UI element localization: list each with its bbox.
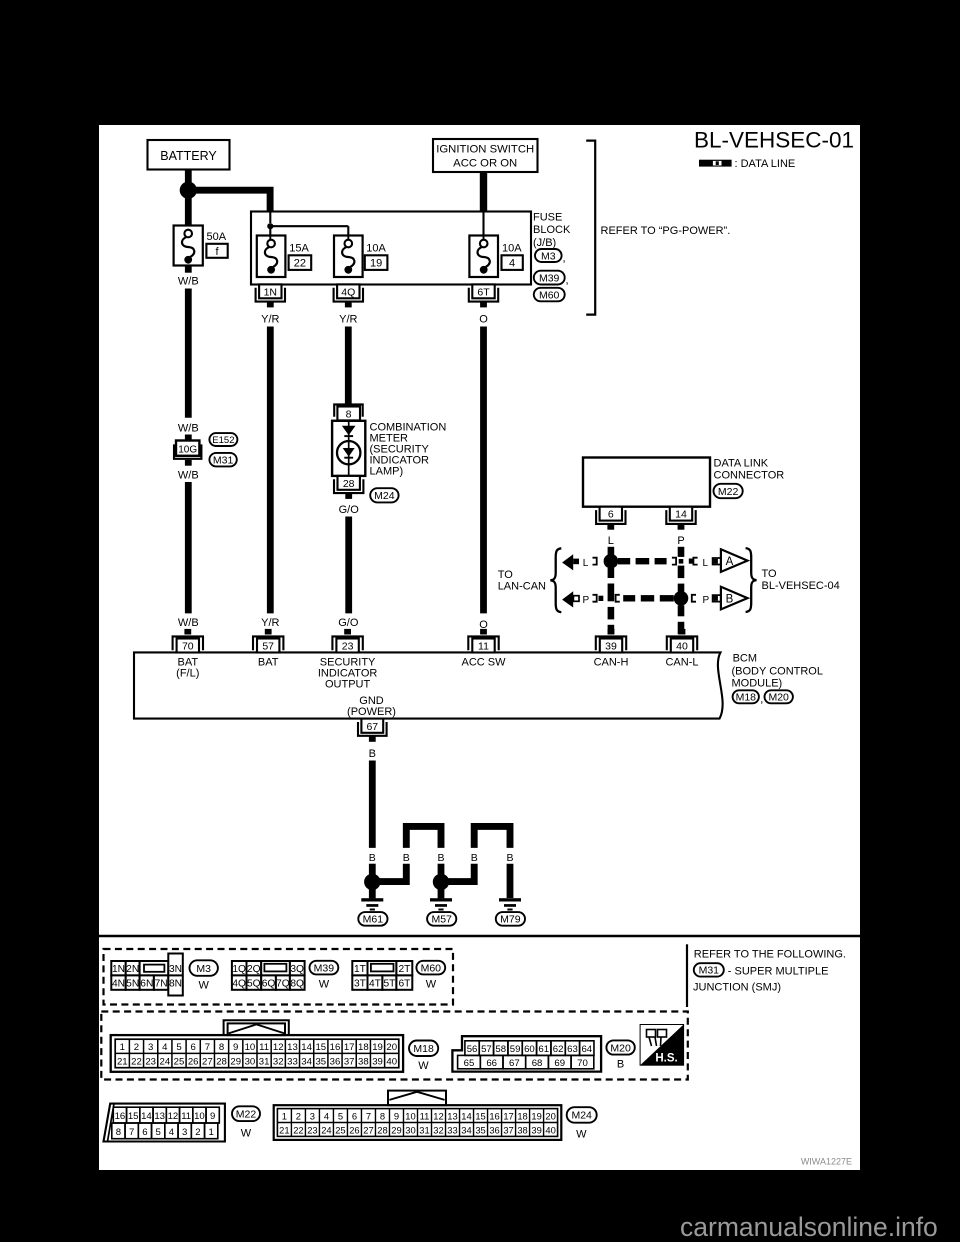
svg-text:11: 11 <box>420 1110 430 1121</box>
svg-text:9: 9 <box>210 1111 215 1122</box>
wire to ground symbol M61 <box>369 888 376 898</box>
svg-text:40: 40 <box>676 641 688 653</box>
ground ref M79 <box>496 912 525 926</box>
svg-text:1N: 1N <box>264 286 277 298</box>
svg-text:28: 28 <box>377 1124 387 1135</box>
svg-text:33: 33 <box>447 1124 457 1135</box>
fuse number box 4 <box>502 255 523 270</box>
svg-text:57: 57 <box>481 1044 492 1055</box>
svg-text:B: B <box>471 852 478 864</box>
wire into fuse 10A-19 <box>347 237 349 241</box>
svg-text:4: 4 <box>509 258 515 270</box>
svg-text:37: 37 <box>503 1124 513 1135</box>
inline connector mark before arrow A <box>713 558 722 565</box>
svg-text:M22: M22 <box>236 1109 257 1121</box>
connector ref M24 (grid) <box>567 1107 597 1123</box>
connector ref M60 <box>534 288 565 302</box>
svg-text:25: 25 <box>174 1056 185 1067</box>
svg-text:P: P <box>702 595 709 606</box>
wire into fuse 10A-4 <box>483 237 485 241</box>
svg-text:62: 62 <box>553 1044 564 1055</box>
svg-text:W/B: W/B <box>178 423 199 435</box>
svg-text:INDICATOR: INDICATOR <box>318 668 378 680</box>
svg-text:67: 67 <box>509 1058 520 1069</box>
wire CAN-L horizontal (data line) <box>623 595 674 601</box>
svg-text:1N: 1N <box>112 964 125 975</box>
svg-text:16: 16 <box>489 1110 499 1121</box>
connector terminal 6 (DLC) <box>596 507 625 530</box>
svg-text:(J/B): (J/B) <box>533 237 556 249</box>
wire CAN-L vertical (data line) <box>678 547 685 635</box>
svg-text:M18: M18 <box>413 1043 434 1055</box>
wire stub into 10G <box>185 435 192 441</box>
svg-text:32: 32 <box>433 1124 443 1135</box>
svg-text:15A: 15A <box>289 243 309 255</box>
svg-text:34: 34 <box>301 1056 312 1067</box>
svg-text:10G: 10G <box>178 445 197 456</box>
svg-text:23: 23 <box>342 641 354 653</box>
svg-text:14: 14 <box>675 509 687 521</box>
connector terminal 4Q <box>334 284 363 307</box>
svg-text:16: 16 <box>115 1111 126 1122</box>
svg-text:M3: M3 <box>196 963 211 975</box>
connector M18 pin grid <box>111 1020 403 1071</box>
svg-text:JUNCTION (SMJ): JUNCTION (SMJ) <box>693 981 781 993</box>
svg-text:13: 13 <box>154 1111 165 1122</box>
connector terminal 14 (DLC) <box>666 507 695 530</box>
svg-text:M3: M3 <box>541 250 556 262</box>
wire junction to fuse block (horizontal) <box>195 190 270 212</box>
svg-text:10: 10 <box>245 1042 256 1053</box>
inline connector mark CAN-L left <box>593 595 604 602</box>
brace right (BL-VEHSEC-04 group) <box>746 548 757 612</box>
svg-text:6: 6 <box>352 1110 357 1121</box>
svg-text:7N: 7N <box>155 978 168 989</box>
svg-text:6: 6 <box>608 509 614 521</box>
inline connector mark before arrow B <box>713 595 722 602</box>
svg-text:BL-VEHSEC-04: BL-VEHSEC-04 <box>762 580 840 592</box>
svg-text:39: 39 <box>605 641 617 653</box>
svg-text:P: P <box>582 595 589 606</box>
svg-text:3Q: 3Q <box>290 964 304 975</box>
svg-text:4T: 4T <box>369 978 381 989</box>
svg-text:carmanualsonline.info: carmanualsonline.info <box>680 1212 938 1242</box>
svg-text:TO: TO <box>498 569 514 581</box>
svg-text:BL-VEHSEC-01: BL-VEHSEC-01 <box>694 128 854 153</box>
svg-text:69: 69 <box>554 1058 565 1069</box>
connector ref M31 <box>209 453 236 467</box>
svg-text:B: B <box>369 748 376 760</box>
svg-text:12: 12 <box>433 1110 443 1121</box>
svg-text:6: 6 <box>191 1042 196 1053</box>
svg-text:38: 38 <box>517 1124 527 1135</box>
svg-text:20: 20 <box>545 1110 555 1121</box>
connector terminal 39 (BCM) <box>596 629 626 653</box>
svg-text:33: 33 <box>287 1056 298 1067</box>
svg-text:B: B <box>506 852 513 864</box>
svg-text:17: 17 <box>503 1110 513 1121</box>
svg-text:B: B <box>369 852 376 864</box>
svg-text:31: 31 <box>259 1056 270 1067</box>
svg-text:11: 11 <box>259 1042 269 1053</box>
fuse number box 22 <box>289 255 312 270</box>
svg-text:M60: M60 <box>421 962 442 974</box>
svg-text:W: W <box>199 979 210 991</box>
wire stub below 10G <box>185 460 192 466</box>
svg-text:68: 68 <box>532 1058 543 1069</box>
connector ref M22 (DLC) <box>714 484 743 498</box>
wire Y/R down to meter <box>345 327 352 404</box>
wire ignition switch to fuse block <box>480 172 487 212</box>
arrow to LAN-CAN (CAN-L) <box>562 591 579 607</box>
svg-text:7: 7 <box>129 1127 134 1138</box>
svg-text:2N: 2N <box>126 964 139 975</box>
svg-text:25: 25 <box>335 1124 345 1135</box>
svg-text:6T: 6T <box>477 286 490 298</box>
wire G/O down to BCM 23 <box>345 517 352 614</box>
connector terminal 57 (BCM) <box>253 629 283 653</box>
connector ref M22 (grid) <box>232 1106 260 1121</box>
connector terminal 23 (BCM) <box>332 629 362 653</box>
svg-text:O: O <box>479 314 488 326</box>
dashed box connector references top <box>104 949 454 1005</box>
fuse block J/B box <box>251 212 531 285</box>
svg-text:23: 23 <box>145 1056 156 1067</box>
svg-text:BAT: BAT <box>178 656 199 668</box>
svg-text:35: 35 <box>475 1124 485 1135</box>
svg-text:LAMP): LAMP) <box>370 466 404 478</box>
svg-text:12: 12 <box>273 1042 284 1053</box>
svg-text:CAN-L: CAN-L <box>665 656 698 668</box>
connector grid M3 <box>111 961 168 990</box>
svg-text:M20: M20 <box>610 1042 631 1054</box>
svg-text:5N: 5N <box>126 978 139 989</box>
connector ref M18 (BCM) <box>733 690 759 703</box>
svg-text:LAN-CAN: LAN-CAN <box>498 581 546 593</box>
svg-text:13: 13 <box>287 1042 298 1053</box>
svg-text:ACC OR ON: ACC OR ON <box>453 157 517 169</box>
node inside fuse block <box>267 223 273 229</box>
svg-text:W: W <box>241 1128 252 1140</box>
svg-text:GND: GND <box>359 695 384 707</box>
svg-text:66: 66 <box>486 1058 497 1069</box>
svg-text:56: 56 <box>467 1044 478 1055</box>
svg-text:BAT: BAT <box>258 656 279 668</box>
svg-text:M39: M39 <box>539 272 560 284</box>
svg-text:10: 10 <box>194 1111 205 1122</box>
connector terminal 8 (meter) <box>334 404 363 420</box>
wire stub to ground node M61 <box>369 864 376 876</box>
connector M20 pin grid <box>452 1036 601 1071</box>
connector terminal 70 (BCM) <box>173 629 203 653</box>
svg-text:40: 40 <box>386 1056 397 1067</box>
svg-text:39: 39 <box>372 1056 383 1067</box>
svg-text:,: , <box>760 694 763 706</box>
svg-text:5: 5 <box>156 1127 161 1138</box>
svg-text:IGNITION SWITCH: IGNITION SWITCH <box>436 144 534 156</box>
svg-text:10A: 10A <box>366 243 386 255</box>
svg-text:28: 28 <box>343 478 355 490</box>
svg-text:16: 16 <box>330 1042 341 1053</box>
svg-text:63: 63 <box>567 1044 578 1055</box>
wire node to fuse 15A <box>269 229 271 241</box>
arrow A to BL-VEHSEC-04 <box>721 549 748 572</box>
svg-text:W: W <box>576 1129 587 1141</box>
ground symbol M61 <box>361 898 383 910</box>
svg-text:W/B: W/B <box>178 469 199 481</box>
svg-text:M31: M31 <box>699 965 720 977</box>
svg-text:2: 2 <box>134 1042 139 1053</box>
connector terminal 1N <box>256 284 285 307</box>
svg-text:28: 28 <box>216 1056 227 1067</box>
connector M24 pin grid <box>274 1091 562 1140</box>
svg-text:1Q: 1Q <box>232 964 246 975</box>
data line legend <box>699 158 795 170</box>
wire to ground symbol M57 <box>438 888 445 898</box>
svg-text:6Q: 6Q <box>262 978 276 989</box>
svg-text:65: 65 <box>464 1058 475 1069</box>
svg-text:3: 3 <box>148 1042 153 1053</box>
svg-text:B: B <box>437 852 444 864</box>
svg-text:29: 29 <box>230 1056 241 1067</box>
node ground junction M61 <box>364 874 380 890</box>
svg-text:4: 4 <box>324 1110 329 1121</box>
svg-text:27: 27 <box>363 1124 373 1135</box>
connector ref M20 (grid) <box>606 1040 634 1054</box>
svg-text:1: 1 <box>120 1042 125 1053</box>
connector ref M39 <box>534 271 565 285</box>
svg-text:14: 14 <box>141 1111 152 1122</box>
wire node to fuse 10A-19 <box>273 225 349 227</box>
svg-text:59: 59 <box>510 1044 521 1055</box>
svg-text:Y/R: Y/R <box>261 314 279 326</box>
svg-text:13: 13 <box>447 1110 457 1121</box>
svg-text:22: 22 <box>131 1056 142 1067</box>
svg-text:20: 20 <box>386 1042 397 1053</box>
svg-text:1T: 1T <box>354 964 366 975</box>
connector terminal 28 (meter) <box>334 476 363 499</box>
svg-text:M18: M18 <box>736 692 757 704</box>
svg-text:1: 1 <box>209 1127 214 1138</box>
ground symbol M79 <box>499 898 521 910</box>
svg-text:21: 21 <box>117 1056 128 1067</box>
svg-text:W/B: W/B <box>178 617 199 629</box>
ignition switch box <box>433 139 538 172</box>
svg-text:(BODY CONTROL: (BODY CONTROL <box>732 665 823 677</box>
svg-text:A: A <box>726 556 734 568</box>
separator line <box>99 935 860 937</box>
svg-text:REFER TO THE FOLLOWING.: REFER TO THE FOLLOWING. <box>694 948 846 960</box>
svg-text:7: 7 <box>205 1042 210 1053</box>
battery B1 box <box>148 140 230 170</box>
svg-text:L: L <box>608 535 614 547</box>
svg-text:8: 8 <box>380 1110 385 1121</box>
wire Y/R down to BCM 57 <box>267 327 274 614</box>
svg-text:18: 18 <box>358 1042 369 1053</box>
svg-text:4N: 4N <box>112 978 125 989</box>
svg-text:36: 36 <box>489 1124 499 1135</box>
svg-text:38: 38 <box>358 1056 369 1067</box>
connector terminal 67 (BCM bottom) <box>358 719 387 742</box>
svg-text:24: 24 <box>321 1124 331 1135</box>
svg-text:9: 9 <box>233 1042 238 1053</box>
svg-text:30: 30 <box>405 1124 415 1135</box>
wire bridge 2 (inverted U) <box>474 826 510 848</box>
svg-text:4Q: 4Q <box>341 286 355 298</box>
wire CAN-H vertical (data line) <box>608 547 615 635</box>
svg-text:M20: M20 <box>768 692 789 704</box>
svg-text:29: 29 <box>391 1124 401 1135</box>
connector ref M18 (grid) <box>409 1041 438 1057</box>
svg-text:6: 6 <box>142 1127 147 1138</box>
node ground junction M57 <box>433 874 449 890</box>
svg-text:M24: M24 <box>571 1110 592 1122</box>
svg-text:W: W <box>319 978 330 990</box>
ground ref M57 <box>427 912 456 926</box>
svg-text:2: 2 <box>296 1110 301 1121</box>
svg-text:G/O: G/O <box>338 617 359 629</box>
svg-text:27: 27 <box>202 1056 213 1067</box>
wire inside fuse block to node <box>269 213 271 224</box>
svg-text:OUTPUT: OUTPUT <box>325 679 371 691</box>
svg-text:8Q: 8Q <box>290 978 304 989</box>
svg-text:6T: 6T <box>398 978 410 989</box>
svg-text:M60: M60 <box>539 289 560 301</box>
wire node M57 to bridge2 left leg <box>445 864 474 882</box>
svg-text:31: 31 <box>419 1124 429 1135</box>
connector terminal 40 (BCM) <box>667 629 697 653</box>
svg-text:70: 70 <box>182 641 194 653</box>
svg-text:E152: E152 <box>212 435 234 446</box>
svg-text:9: 9 <box>394 1110 399 1121</box>
connector ref M24 (meter) <box>370 488 398 502</box>
wire battery to junction <box>185 170 192 184</box>
svg-text:14: 14 <box>461 1110 471 1121</box>
svg-text:SECURITY: SECURITY <box>320 656 376 668</box>
arrow B to BL-VEHSEC-04 <box>721 587 748 610</box>
svg-text:11: 11 <box>478 641 489 653</box>
svg-text:12: 12 <box>168 1111 179 1122</box>
svg-text:37: 37 <box>344 1056 355 1067</box>
node CAN-H junction <box>604 554 619 569</box>
svg-text:ACC SW: ACC SW <box>462 656 507 668</box>
node CAN-L junction <box>674 591 689 606</box>
svg-text:10: 10 <box>405 1110 415 1121</box>
wire ignition feed to fuse 10A-4 <box>482 213 484 241</box>
fusible link f 50A <box>174 226 203 266</box>
svg-text:7: 7 <box>366 1110 371 1121</box>
svg-text:2Q: 2Q <box>247 964 261 975</box>
svg-text:11: 11 <box>181 1111 191 1122</box>
svg-text:3: 3 <box>182 1127 187 1138</box>
svg-text:8N: 8N <box>169 978 182 989</box>
svg-text:5Q: 5Q <box>247 978 261 989</box>
svg-text:M61: M61 <box>363 914 384 926</box>
connector ref M3 (grid) <box>190 960 218 976</box>
svg-text:18: 18 <box>517 1110 527 1121</box>
svg-text:(F/L): (F/L) <box>176 668 199 680</box>
svg-text:24: 24 <box>159 1056 170 1067</box>
svg-text:L: L <box>703 558 709 569</box>
svg-text:H.S.: H.S. <box>655 1053 677 1065</box>
svg-text:,: , <box>566 275 569 287</box>
svg-text:22: 22 <box>293 1124 303 1135</box>
svg-text:10A: 10A <box>502 243 522 255</box>
H.S. emblem <box>640 1025 684 1066</box>
svg-text:M22: M22 <box>718 486 739 498</box>
svg-text:FUSE: FUSE <box>533 212 562 224</box>
svg-text:BLOCK: BLOCK <box>533 224 571 236</box>
svg-text:W: W <box>418 1060 429 1072</box>
fuse number box 19 <box>365 255 388 270</box>
svg-text:M79: M79 <box>500 914 521 926</box>
svg-text:17: 17 <box>344 1042 355 1053</box>
ground symbol M57 <box>430 898 452 910</box>
connector ref M20 (BCM) <box>765 690 793 703</box>
svg-text:26: 26 <box>188 1056 199 1067</box>
fuse F19 10A <box>334 236 363 278</box>
svg-text:MODULE): MODULE) <box>732 678 783 690</box>
svg-text:5: 5 <box>176 1042 181 1053</box>
connector M22 pin grid <box>104 1104 225 1142</box>
svg-text:M57: M57 <box>431 914 452 926</box>
svg-text:34: 34 <box>461 1124 471 1135</box>
BCM (body control module) box <box>134 652 723 718</box>
bracket PG-POWER group <box>586 141 595 315</box>
svg-text:M39: M39 <box>314 962 335 974</box>
data link connector box <box>583 458 710 507</box>
svg-text:5: 5 <box>338 1110 343 1121</box>
svg-text:REFER TO “PG-POWER”.: REFER TO “PG-POWER”. <box>601 225 731 237</box>
svg-text:- SUPER MULTIPLE: - SUPER MULTIPLE <box>728 966 829 978</box>
svg-text:36: 36 <box>330 1056 341 1067</box>
wire CAN-H horizontal (data line) <box>618 558 667 564</box>
svg-text:58: 58 <box>495 1044 506 1055</box>
svg-text:3: 3 <box>310 1110 315 1121</box>
connector ref M39 (grid) <box>310 961 339 975</box>
svg-text:21: 21 <box>279 1124 289 1135</box>
svg-text:14: 14 <box>301 1042 312 1053</box>
wire into fuse 15A <box>269 237 271 241</box>
svg-text:8: 8 <box>346 409 352 421</box>
wire B from BCM 67 to ground <box>369 761 376 848</box>
svg-text:BATTERY: BATTERY <box>160 149 217 163</box>
brace left (LAN-CAN group) <box>550 548 561 612</box>
svg-text:61: 61 <box>538 1044 549 1055</box>
svg-text:19: 19 <box>372 1042 383 1053</box>
svg-text:57: 57 <box>262 641 274 653</box>
svg-text:50A: 50A <box>207 231 227 243</box>
svg-text:B: B <box>617 1058 624 1070</box>
wire O down to BCM 11 <box>480 327 487 614</box>
svg-text:32: 32 <box>273 1056 284 1067</box>
svg-text:TO: TO <box>762 568 778 580</box>
svg-text:60: 60 <box>524 1044 535 1055</box>
svg-text:8: 8 <box>219 1042 224 1053</box>
svg-text:P: P <box>677 535 684 547</box>
data line mark after crossing <box>689 559 693 564</box>
svg-text:B: B <box>726 594 734 606</box>
svg-text:40: 40 <box>545 1124 555 1135</box>
dashed box connector references middle <box>101 1012 688 1080</box>
svg-text:15: 15 <box>128 1111 139 1122</box>
svg-text:G/O: G/O <box>339 504 360 516</box>
connector ref M31 (SMJ) <box>694 963 724 977</box>
svg-text:BCM: BCM <box>733 653 757 665</box>
svg-text:4: 4 <box>162 1042 168 1053</box>
svg-text:M24: M24 <box>374 490 395 502</box>
svg-text:2: 2 <box>195 1127 200 1138</box>
